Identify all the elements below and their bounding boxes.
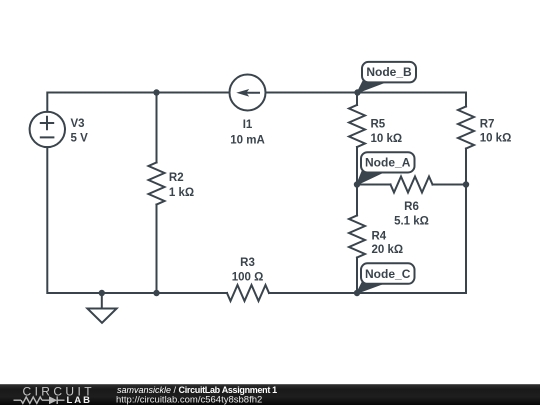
svg-text:5.1 kΩ: 5.1 kΩ: [394, 215, 429, 227]
svg-text:LAB: LAB: [67, 395, 93, 405]
svg-text:R6: R6: [404, 201, 419, 213]
svg-text:samvansickle / CircuitLab Assi: samvansickle / CircuitLab Assignment 1: [117, 385, 277, 395]
svg-text:Node_B: Node_B: [366, 65, 412, 79]
svg-text:Node_C: Node_C: [365, 267, 411, 281]
svg-text:R3: R3: [240, 257, 255, 269]
svg-text:1 kΩ: 1 kΩ: [169, 187, 194, 199]
svg-text:R2: R2: [169, 172, 184, 184]
svg-text:R5: R5: [371, 118, 386, 130]
svg-text:R4: R4: [372, 231, 387, 243]
svg-text:10 kΩ: 10 kΩ: [480, 133, 512, 145]
svg-text:10 kΩ: 10 kΩ: [371, 133, 403, 145]
svg-text:100 Ω: 100 Ω: [232, 271, 264, 283]
svg-text:V3: V3: [71, 118, 85, 130]
svg-text:I1: I1: [243, 119, 253, 131]
svg-text:20 kΩ: 20 kΩ: [372, 244, 404, 256]
svg-text:http://circuitlab.com/c564ty8s: http://circuitlab.com/c564ty8sb8fh2: [116, 395, 262, 405]
svg-text:5 V: 5 V: [71, 133, 89, 145]
svg-text:10 mA: 10 mA: [230, 135, 265, 147]
svg-text:Node_A: Node_A: [365, 156, 411, 170]
svg-text:R7: R7: [480, 118, 495, 130]
